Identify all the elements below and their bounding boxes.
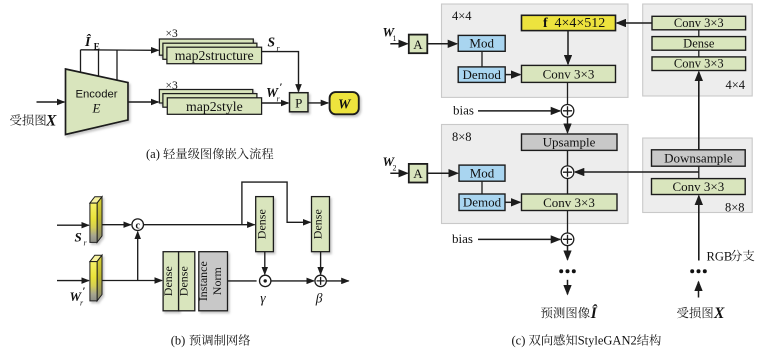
- label: β: [315, 290, 323, 305]
- S_r feature bar (3D slab): [90, 197, 102, 243]
- wire: RGB conv to const f: [617, 22, 652, 24]
- wire: skip add down into Conv (row 2): [567, 179, 569, 195]
- svg-text:Conv 3×3: Conv 3×3: [674, 57, 724, 71]
- svg-text:bias: bias: [452, 231, 473, 246]
- svg-text:Conv 3×3: Conv 3×3: [543, 67, 595, 82]
- svg-text:Demod: Demod: [463, 67, 502, 82]
- svg-text:A: A: [413, 37, 423, 52]
- map2style stack (3 layers): [159, 90, 261, 115]
- label: 受损图 X (panel c): [677, 305, 725, 322]
- Mod box (row 1): [458, 35, 505, 51]
- Mod box (row 2): [459, 165, 505, 181]
- panel: RGB branch block 4×4 (right): [643, 4, 753, 96]
- dense block (γ branch): [255, 197, 274, 252]
- label: S_r (panel b): [75, 230, 88, 248]
- svg-text:Dense: Dense: [683, 36, 715, 50]
- svg-text:Conv 3×3: Conv 3×3: [543, 195, 595, 210]
- svg-text:Î: Î: [590, 305, 598, 322]
- encoder E trapezoid block: [66, 69, 129, 135]
- wire: W_2 into A: [390, 172, 407, 174]
- svg-text:map2style: map2style: [186, 99, 243, 114]
- svg-text:8×8: 8×8: [725, 200, 745, 214]
- caption (c): [512, 334, 661, 348]
- svg-text:β: β: [315, 290, 323, 305]
- svg-text:Mod: Mod: [469, 36, 494, 51]
- wire: Demod to Conv (row 1): [505, 74, 520, 76]
- label: W'_r (panel a): [266, 82, 283, 104]
- A affine box (row 1): [409, 35, 428, 54]
- svg-text:E: E: [94, 42, 100, 52]
- wire: W_1 into A: [390, 43, 407, 45]
- wire: arrow up from damaged image: [698, 282, 700, 298]
- wire: Dense(γ) down into multiply node: [264, 252, 266, 275]
- svg-text:Demod: Demod: [463, 195, 502, 210]
- wire: damaged image up into RGB conv: [698, 196, 700, 261]
- wire: input arrow into W'_r bar: [57, 280, 89, 282]
- svg-text:Dense: Dense: [161, 266, 175, 296]
- W latent code box (yellow): [330, 92, 359, 114]
- const f 4×4×512 box (yellow): [522, 15, 616, 31]
- instance norm block: [196, 252, 227, 311]
- wire: W'_r bar to dense group with branch up into concat: [102, 232, 162, 281]
- caption (b): [171, 334, 250, 348]
- svg-text:E: E: [92, 101, 101, 116]
- wire: bias arrow (row 1): [478, 110, 560, 112]
- wire: input arrow into encoder: [37, 101, 65, 103]
- svg-text:(a): (a): [146, 147, 160, 161]
- wire: Upsample down into skip add: [567, 150, 569, 166]
- panel: styled block 4×4 (left): [442, 4, 629, 97]
- multiply node ⊙: [260, 275, 271, 286]
- svg-text:Dense: Dense: [255, 209, 269, 239]
- svg-text:(b): (b): [171, 334, 186, 348]
- ellipsis dots (main flow): [559, 269, 576, 273]
- label: W'_r (panel b): [70, 286, 86, 308]
- wire: RGB skip branch into add (from right): [575, 171, 699, 173]
- svg-text:S: S: [75, 230, 82, 245]
- svg-text:×3: ×3: [166, 28, 178, 40]
- label: RGB分支: [707, 249, 755, 263]
- svg-text:8×8: 8×8: [452, 130, 472, 144]
- wire: Demod to Conv (row 2): [505, 201, 520, 203]
- wire: connectors inside RGB 4×4 block: [698, 30, 700, 57]
- Conv 3×3 box (4×4 row): [522, 65, 616, 82]
- svg-text:bias: bias: [453, 102, 474, 117]
- svg-text:1: 1: [393, 34, 397, 43]
- svg-text:Downsample: Downsample: [664, 151, 733, 166]
- dense block pair (horizontal group): [161, 252, 195, 311]
- Downsample box: [652, 150, 746, 166]
- dense block (β branch): [311, 197, 330, 252]
- wire: Dense(β) down into add node: [320, 252, 322, 275]
- Conv 3×3 box (RGB 4×4 top): [652, 16, 746, 30]
- svg-text:4×4: 4×4: [452, 9, 472, 23]
- svg-text:S: S: [268, 35, 276, 50]
- label: ×3 above map2style: [166, 80, 178, 92]
- svg-text:Encoder: Encoder: [75, 89, 117, 101]
- P combiner box: [290, 93, 309, 112]
- svg-text:2: 2: [393, 163, 397, 172]
- Demod box (row 2): [459, 194, 505, 211]
- A affine box (row 2): [409, 164, 428, 183]
- label: ×3 above map2structure: [166, 28, 178, 40]
- wire: A to Mod (row 2): [427, 172, 457, 174]
- Conv 3×3 box (RGB 4×4 bottom): [652, 57, 746, 71]
- svg-text:Instance: Instance: [196, 261, 210, 301]
- Conv 3×3 box (RGB 8×8): [652, 179, 746, 195]
- svg-text:P: P: [295, 95, 302, 110]
- label: γ: [260, 290, 266, 305]
- wire: encoder top taps and feature bus to map2structure: [81, 50, 159, 81]
- wire: arrow down to predicted image: [567, 280, 569, 294]
- svg-text:Dense: Dense: [311, 209, 325, 239]
- wire: f into Conv (row 1): [567, 31, 569, 65]
- wire: multiply node to add node: [271, 280, 314, 282]
- add node ⊕ (bias row 1): [561, 105, 574, 118]
- svg-text:c: c: [135, 220, 140, 231]
- label: bias (row 1): [453, 102, 474, 117]
- label: bias (row 2): [452, 231, 473, 246]
- wire: output arrow below bias add: [567, 246, 569, 260]
- svg-text:γ: γ: [260, 290, 266, 305]
- wire: Mod to Demod (row 1): [481, 51, 483, 67]
- panel: RGB branch block 8×8 (right): [643, 138, 753, 214]
- wire: Conv down to bias add (row 1): [567, 82, 569, 104]
- svg-text:Mod: Mod: [470, 165, 495, 180]
- wire: P to W: [308, 102, 328, 104]
- concat node (c): [132, 219, 144, 232]
- label: 预测图像 Î: [541, 305, 598, 322]
- Demod box (row 1): [458, 67, 505, 83]
- add node ⊕ (β): [315, 275, 326, 286]
- svg-text:4×4: 4×4: [725, 78, 745, 92]
- svg-text:Upsample: Upsample: [543, 135, 596, 150]
- wire: W' from map2style into P: [262, 102, 289, 104]
- label: S_r: [268, 35, 281, 54]
- wire: RGB conv up to Downsample: [698, 166, 700, 178]
- Conv 3×3 box (8×8 row): [522, 194, 618, 211]
- svg-text:StyleGAN2: StyleGAN2: [578, 334, 637, 348]
- map2structure stack (3 layers): [159, 39, 261, 64]
- panel: styled block 8×8 (left): [442, 125, 629, 224]
- svg-text:(c): (c): [512, 334, 526, 348]
- wire: Mod to Demod (row 2): [481, 181, 483, 194]
- wire: Conv down to bias add (row 2): [567, 211, 569, 234]
- label: W_1: [383, 25, 397, 44]
- svg-text:′: ′: [83, 286, 86, 298]
- svg-text:X: X: [45, 112, 57, 129]
- svg-text:RGB: RGB: [707, 249, 733, 263]
- svg-text:Conv 3×3: Conv 3×3: [673, 179, 725, 194]
- wire: Downsample up into RGB 4×4 block: [698, 72, 700, 150]
- svg-text:map2structure: map2structure: [175, 48, 254, 63]
- label: input 受损图 X (panel a): [10, 112, 57, 129]
- svg-text:4×4×512: 4×4×512: [555, 16, 606, 31]
- Dense box (RGB 4×4): [652, 36, 746, 50]
- label: encoder feature Î_E: [84, 33, 100, 52]
- svg-text:X: X: [713, 305, 725, 322]
- svg-text:Dense: Dense: [177, 266, 191, 296]
- wire: bias add down into Upsample: [567, 117, 569, 133]
- wire: input arrow into S_r bar: [57, 224, 89, 226]
- svg-text:Norm: Norm: [210, 267, 224, 296]
- svg-text:W: W: [338, 97, 352, 112]
- W'_r feature bar (3D slab): [90, 255, 102, 301]
- wire: output arrow from add node: [326, 280, 348, 282]
- wire: bias arrow (row 2): [478, 238, 560, 240]
- add node ⊕ (skip 8×8): [561, 166, 574, 179]
- wire: encoder to map2style: [128, 101, 158, 103]
- svg-text:A: A: [413, 166, 423, 181]
- add node ⊕ (bias row 2): [561, 233, 574, 246]
- caption (a): [146, 147, 273, 161]
- Upsample box: [522, 134, 618, 150]
- wire: A to Mod (row 1): [427, 43, 457, 45]
- wire: instance norm to multiply node: [228, 280, 257, 282]
- wire: S from map2structure down into P: [262, 52, 299, 92]
- wire: concat output to Dense(γ) with branch over to Dense(β): [144, 182, 311, 225]
- svg-text:′: ′: [280, 82, 283, 94]
- svg-text:f: f: [543, 16, 548, 31]
- wire: S_r bar to concat node: [102, 224, 131, 226]
- svg-text:Conv 3×3: Conv 3×3: [674, 16, 724, 30]
- label: W_2: [383, 154, 397, 173]
- ellipsis dots (RGB branch): [690, 269, 707, 273]
